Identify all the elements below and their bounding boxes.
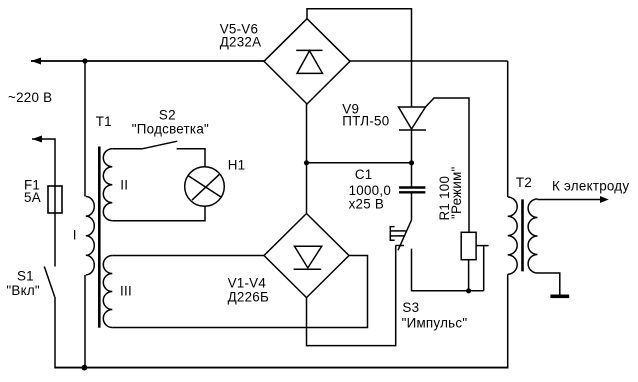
arrow to electrode: [600, 196, 609, 203]
wire R1 bottom lead: [468, 260, 470, 291]
wire S2 fixed contact to lamp: [177, 149, 205, 167]
transformer T2 secondary winding: [528, 199, 537, 273]
svg-text:x25 В: x25 В: [349, 197, 385, 212]
capacitor C1: [399, 186, 425, 188]
transformer T1 core: [98, 147, 101, 328]
wire V9 gate: [426, 98, 470, 232]
wire right vertical upper: [507, 61, 509, 197]
switch S3 pusher: [390, 227, 394, 241]
junction node bridge link left: [304, 160, 309, 165]
diode symbol inside V5-V6: [296, 49, 322, 51]
svg-text:S2: S2: [159, 108, 176, 123]
junction node bridge link right: [409, 160, 414, 165]
wire through fuse: [54, 186, 56, 213]
arrow mains bottom: [32, 136, 42, 143]
switch S2 blade: [143, 141, 178, 149]
wire cross link: [307, 162, 412, 164]
wire right vertical lower: [507, 274, 509, 368]
junction node top: [82, 58, 87, 63]
wire C1 bottom lead: [411, 193, 413, 220]
wire switch S1 to bottom rail: [54, 297, 56, 369]
svg-text:II: II: [120, 178, 128, 193]
wire winding I feed top: [84, 61, 86, 197]
rectifier bridge V1-V4 diamond: [264, 214, 349, 298]
wire V9 cathode down: [411, 130, 413, 163]
svg-text:C1: C1: [355, 167, 373, 182]
wire S3 second contact to R1 junction: [412, 249, 484, 291]
transformer T1 winding II: [103, 149, 112, 221]
svg-text:T1: T1: [96, 114, 112, 129]
wire bridge V5-V6 bottom to bridge V1-V4 top: [306, 104, 308, 214]
junction node R1 bottom: [466, 288, 471, 293]
svg-text:~220 В: ~220 В: [8, 90, 52, 105]
svg-text:Д232А: Д232А: [220, 35, 262, 50]
wire secondary top to arrow: [538, 199, 602, 201]
switch S1 blade: [44, 267, 54, 297]
svg-text:H1: H1: [228, 158, 246, 173]
switch S3 lower contact: [396, 245, 405, 247]
svg-text:S3: S3: [402, 300, 419, 315]
wire diamond top to V9: [307, 9, 412, 107]
svg-text:Д226Б: Д226Б: [228, 290, 269, 305]
ground symbol: [550, 295, 569, 299]
wire R1 tap: [476, 245, 489, 247]
thyristor V9: [399, 107, 426, 129]
wire bridge V1-V4 right to winding III bottom: [112, 256, 367, 328]
wire lamp bottom: [112, 206, 205, 220]
transformer T2 core: [521, 199, 524, 271]
svg-text:I: I: [73, 228, 77, 243]
svg-text:S1: S1: [17, 269, 34, 284]
fuse F1: [48, 186, 62, 213]
svg-text:III: III: [120, 284, 132, 299]
svg-text:T2: T2: [516, 175, 532, 190]
svg-text:V1-V4: V1-V4: [228, 276, 267, 291]
transformer T1 winding I: [86, 197, 95, 275]
wire winding II top: [112, 148, 142, 150]
svg-text:"Вкл": "Вкл": [6, 283, 40, 298]
transformer T2 primary winding: [508, 197, 518, 274]
wire bridge V1-V4 left to winding III top: [112, 255, 264, 257]
resistor R1: [461, 232, 476, 259]
lamp H1: [185, 167, 225, 207]
wire C1 top lead: [411, 163, 413, 187]
diode symbol inside V1-V4: [295, 246, 322, 268]
svg-text:"Подсветка": "Подсветка": [132, 122, 209, 137]
arrow mains top: [31, 58, 41, 65]
svg-text:ПТЛ-50: ПТЛ-50: [342, 114, 389, 129]
svg-text:К электроду: К электроду: [552, 178, 629, 193]
svg-text:"Режим": "Режим": [449, 166, 464, 219]
wire diamond right corner to right vertical: [350, 60, 508, 62]
svg-text:5A: 5A: [24, 190, 41, 205]
svg-text:"Импульс": "Импульс": [402, 316, 468, 331]
switch S3 blade: [398, 220, 412, 250]
wire mains second line to fuse: [32, 139, 55, 186]
wire S3 to bridge V1-V4 bottom: [307, 246, 396, 346]
wire fuse to switch: [54, 213, 56, 267]
transformer T1 winding III: [103, 256, 112, 328]
wire bottom rail: [55, 367, 508, 369]
junction node bottom rail: [82, 365, 88, 371]
rectifier bridge V5-V6 diamond: [264, 19, 350, 104]
wire secondary bottom to ground: [538, 273, 560, 295]
wire winding I bottom lead: [84, 275, 86, 368]
wire top mains line: [31, 60, 264, 62]
